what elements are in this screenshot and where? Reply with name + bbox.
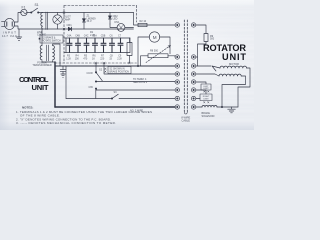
wire plug to fuse: [15, 13, 21, 23]
label T1: [37, 31, 46, 37]
label R1: [90, 31, 95, 37]
junction dot rail 3: [137, 65, 138, 66]
capacitor C4A: [67, 38, 72, 53]
wire terminal 3 to motor: [196, 65, 211, 67]
rail terminal 6: [96, 89, 175, 91]
wire right end of cap bank: [129, 38, 131, 53]
limit switch box left: [201, 84, 211, 90]
junction dot solenoid: [221, 106, 222, 107]
capacitor bank top rail: [64, 37, 130, 39]
svg-text:C6: C6: [110, 35, 114, 38]
svg-text:M: M: [153, 35, 157, 40]
annotation box connector: [108, 67, 131, 74]
terminal 1 left: [175, 23, 179, 27]
diode CR1: [68, 27, 71, 31]
rail terminal 5: [96, 81, 175, 84]
brake solenoid L1: [202, 106, 217, 108]
svg-text:3. ----- DENOTES MECHANICAL CO: 3. ----- DENOTES MECHANICAL CONNECTION T…: [16, 121, 116, 125]
svg-text:CABLE: CABLE: [182, 119, 191, 123]
label R9: [210, 35, 215, 41]
PC board boundary dashed: [55, 6, 137, 64]
NOTES text: [16, 106, 152, 126]
wire terminal 5 right: [196, 82, 206, 84]
svg-text:C4B: C4B: [75, 35, 80, 38]
svg-text:MOTOR: MOTOR: [229, 62, 239, 66]
resistor R9: [204, 34, 208, 42]
capacitor C5B: [101, 38, 106, 53]
label PL1: [64, 16, 72, 22]
potentiometer R8: [141, 54, 176, 66]
label Z1: [87, 15, 97, 24]
svg-text:DS1: DS1: [115, 21, 120, 24]
wire to terminal 1: [134, 13, 176, 26]
capacitor C7: [118, 38, 123, 53]
svg-text:SOLENOID: SOLENOID: [202, 115, 215, 118]
label CR2: [113, 15, 119, 21]
wire primary bottom: [42, 61, 55, 62]
limit switch box right: [200, 94, 212, 101]
svg-text:1K: 1K: [92, 57, 95, 60]
terminal 3 right: [191, 64, 195, 68]
label brake solenoid: [202, 112, 215, 118]
thick wire vertical to terminal 8: [54, 62, 56, 107]
wire meter left: [138, 37, 149, 66]
wire secondary bottom: [52, 61, 54, 62]
terminal 3 left: [175, 64, 179, 68]
annotation box S2 position: [39, 35, 63, 43]
power transformer T2: [40, 45, 54, 61]
capacitor to chassis on rail 3: [60, 66, 66, 77]
svg-text:S2 SHOWN IN: S2 SHOWN IN: [110, 69, 126, 71]
svg-text:C7: C7: [118, 35, 122, 38]
svg-text:F1: F1: [22, 5, 26, 9]
cable dashed lines: [184, 20, 187, 112]
wire switch branch: [95, 90, 97, 99]
motor M2: [212, 66, 247, 76]
AC plug P1: [2, 18, 15, 29]
labels capacitor bank bottom: [66, 55, 122, 61]
resistor R2 on wire: [138, 23, 147, 26]
rail terminal 7: [66, 98, 112, 100]
wire fuse to switch: [27, 12, 31, 14]
fuse F1: [21, 9, 27, 15]
capacitor C6: [110, 38, 115, 53]
svg-text:36 V: 36 V: [87, 20, 92, 23]
svg-text:UNIT: UNIT: [222, 52, 246, 62]
switch S3: [111, 94, 175, 99]
wire terminal 1 right: [196, 25, 206, 34]
capacitor C4B: [76, 38, 81, 53]
wire terminal 7 right: [196, 98, 200, 100]
wire terminal 2 right: [196, 56, 198, 58]
wire terminal 4 to motor winding 2: [196, 74, 219, 76]
svg-text:220: 220: [100, 57, 105, 60]
wire motor winding 1 right: [238, 68, 250, 107]
svg-text:100: 100: [75, 57, 80, 60]
terminal 7 right: [191, 96, 195, 100]
svg-text:UNIT: UNIT: [32, 83, 49, 92]
svg-text:SEE NOTE 2: SEE NOTE 2: [133, 81, 148, 84]
terminal 1 right: [191, 23, 195, 27]
svg-text:C5A: C5A: [92, 35, 97, 38]
x marks under right box: [204, 102, 209, 103]
wire vertical left: [65, 66, 67, 99]
x marks at connector: [105, 68, 107, 72]
terminal 6 right: [191, 88, 195, 92]
x mark PC crossing: [63, 12, 65, 14]
wire top rail PC: [64, 12, 134, 14]
svg-text:R8 500: R8 500: [150, 50, 159, 53]
rail terminal 4: [104, 63, 175, 74]
terminal 8 right: [191, 105, 195, 109]
wire plug bottom rail: [15, 26, 43, 29]
capacitor bank bottom rail: [64, 52, 130, 54]
meter M1: [149, 32, 159, 42]
switch S1: [31, 8, 39, 13]
svg-text:C5B: C5B: [101, 35, 106, 38]
svg-text:C4C: C4C: [84, 35, 89, 38]
terminal 5 right: [191, 80, 195, 84]
terminal 4 right: [191, 72, 195, 76]
x mark PC crossing: [63, 28, 65, 30]
x marks under left box: [204, 91, 209, 92]
label 8 wire cable: [181, 116, 190, 123]
svg-text:CR1: CR1: [67, 23, 73, 27]
capacitor C5A: [93, 38, 98, 53]
svg-text:S1: S1: [35, 3, 39, 7]
labels capacitor bank top: [67, 35, 122, 38]
capacitor C4C: [84, 38, 89, 53]
terminal 2 left: [175, 55, 179, 59]
svg-text:S2: S2: [99, 68, 103, 72]
terminal 8 left: [175, 105, 179, 109]
label INPUT 117VAC: [2, 31, 18, 39]
terminal 4 left: [175, 72, 179, 76]
svg-text:S3: S3: [114, 91, 118, 94]
terminal 2 right: [191, 55, 195, 59]
svg-text:CCW: CCW: [87, 71, 94, 75]
wire R9 to bus: [198, 42, 207, 67]
svg-text:ROTATE SWITCH: ROTATE SWITCH: [42, 40, 61, 43]
terminal 7 left: [175, 96, 179, 100]
wire top rail to PC board: [43, 12, 65, 14]
wire primary top: [41, 29, 43, 46]
wire solenoid to ground: [217, 106, 238, 108]
wire terminal 8 right: [196, 106, 202, 108]
wire motor winding 2 right: [222, 76, 246, 107]
pilot lamp PL1: [53, 13, 62, 30]
wire secondary top: [53, 44, 60, 66]
svg-text:C4A: C4A: [67, 35, 72, 38]
ground rotator: [228, 107, 236, 113]
mechanical link dashed to meter: [146, 46, 171, 63]
label see note 2: [133, 78, 148, 84]
label ROTATOR UNIT: [203, 43, 246, 62]
svg-text:LAMP: LAMP: [64, 18, 71, 21]
zener diode Z1: [82, 13, 85, 30]
transformer T1 winding: [41, 12, 48, 30]
terminal 5 left: [175, 80, 179, 84]
x mark PC bottom crossing: [103, 62, 105, 64]
x mark PC bottom crossing: [129, 62, 131, 64]
label CONTROL UNIT: [19, 75, 49, 92]
cable bracket: [184, 112, 187, 115]
svg-text:S2 BRAKE &: S2 BRAKE &: [42, 37, 56, 40]
wire switch to transformer: [39, 12, 43, 14]
switch S2: [95, 63, 102, 90]
wire meter right: [160, 37, 170, 54]
svg-text:470: 470: [83, 57, 88, 60]
label power transformer: [32, 61, 52, 67]
thick wire rail terminal 8: [55, 106, 175, 108]
wire bottom rail inside PC: [43, 28, 134, 30]
x mark PC bottom crossing: [95, 62, 97, 64]
svg-text:BRAKE POSITION: BRAKE POSITION: [110, 71, 130, 74]
svg-text:33: 33: [109, 57, 112, 60]
diode CR2 LED: [108, 13, 111, 25]
svg-text:CW: CW: [89, 85, 94, 89]
svg-text:TRANSFORMER: TRANSFORMER: [32, 64, 52, 67]
terminal 6 left: [175, 88, 179, 92]
svg-text:R2 10: R2 10: [140, 20, 147, 23]
svg-text:500: 500: [210, 38, 215, 41]
chassis ground at plug: [16, 29, 22, 40]
resistor R7 vertical: [127, 38, 132, 63]
lamp DS1: [110, 24, 134, 32]
wire terminal 6 right: [196, 90, 206, 94]
svg-text:2.2K: 2.2K: [117, 57, 122, 60]
rail terminal 3: [55, 65, 175, 67]
wire left end of cap bank: [65, 38, 67, 53]
svg-text:LIMIT: LIMIT: [203, 99, 209, 101]
svg-text:1.2K: 1.2K: [66, 57, 71, 60]
svg-text:117 VAC: 117 VAC: [2, 34, 18, 38]
